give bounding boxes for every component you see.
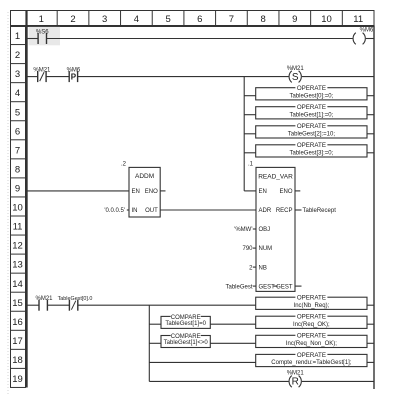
svg-text:OPERATE: OPERATE bbox=[297, 295, 326, 302]
wire operate row 16 to right rail bbox=[367, 323, 374, 325]
svg-text:OBJ: OBJ bbox=[259, 227, 271, 233]
contact %M21 rung15 bbox=[39, 300, 47, 311]
operate block TableGest[3]:=0; bbox=[256, 141, 367, 157]
svg-text:%M6: %M6 bbox=[360, 28, 374, 34]
operate block Compte_rendu:=TableGest[1]; bbox=[256, 351, 367, 367]
svg-text:OPERATE: OPERATE bbox=[297, 123, 326, 130]
svg-text:Inc(Req_OK);: Inc(Req_OK); bbox=[293, 322, 330, 328]
wire rung1: left rail to contact %S6 bbox=[27, 38, 39, 40]
svg-text:17: 17 bbox=[12, 336, 23, 347]
svg-text:3: 3 bbox=[15, 69, 20, 80]
svg-text:18: 18 bbox=[12, 355, 23, 366]
ADDM IN tick bbox=[127, 209, 129, 211]
svg-text:OUT: OUT bbox=[145, 208, 158, 214]
branch wire to operate block row 4 bbox=[244, 95, 256, 97]
svg-text:OPERATE: OPERATE bbox=[297, 352, 326, 359]
svg-text:RECP: RECP bbox=[276, 208, 293, 214]
svg-text:19: 19 bbox=[12, 374, 23, 385]
svg-text:5: 5 bbox=[15, 107, 20, 118]
svg-text:TableGest[2]:=10;: TableGest[2]:=10; bbox=[288, 132, 336, 138]
svg-text:TableGest[0].0: TableGest[0].0 bbox=[58, 296, 93, 302]
ADDM ENO stub bbox=[160, 190, 165, 192]
svg-text:Compte_rendu:=TableGest[1];: Compte_rendu:=TableGest[1]; bbox=[271, 360, 352, 366]
branch wire to operate block row 7 bbox=[244, 152, 256, 154]
svg-text:10: 10 bbox=[12, 203, 23, 214]
svg-text:16: 16 bbox=[12, 317, 23, 328]
svg-text:2: 2 bbox=[249, 265, 253, 271]
svg-text:ENO: ENO bbox=[279, 189, 292, 195]
wire rung3: between contacts bbox=[46, 76, 69, 78]
svg-text:%M6: %M6 bbox=[67, 67, 81, 73]
wire operate rung15 to right rail bbox=[367, 304, 374, 306]
svg-text:7: 7 bbox=[229, 14, 234, 25]
svg-text:OPERATE: OPERATE bbox=[297, 333, 326, 340]
svg-text:NB: NB bbox=[259, 265, 267, 271]
wire: branch to READ_VAR EN bbox=[244, 190, 256, 192]
wire rung19: branch to reset coil bbox=[149, 380, 288, 382]
svg-text:R: R bbox=[292, 377, 299, 388]
svg-text:ENO: ENO bbox=[145, 189, 158, 195]
svg-text:Inc(Req_Non_OK);: Inc(Req_Non_OK); bbox=[286, 341, 337, 347]
svg-text:%M21: %M21 bbox=[35, 296, 53, 302]
wire: left rail to ADDM EN bbox=[27, 190, 130, 192]
svg-text:P: P bbox=[71, 72, 77, 81]
svg-text:2: 2 bbox=[15, 50, 20, 61]
wire rung15: between contacts bbox=[47, 304, 69, 306]
svg-text:ADDM: ADDM bbox=[135, 173, 154, 180]
operate block Inc(Nb_Req); bbox=[256, 294, 367, 310]
svg-text:Inc(Nb_Req);: Inc(Nb_Req); bbox=[294, 303, 330, 309]
READ_VAR GEST output stub bbox=[295, 285, 302, 287]
svg-text:11: 11 bbox=[13, 222, 23, 233]
wire rung3: left rail to contact %M21 bbox=[27, 76, 38, 78]
wire compare to operate row 17 bbox=[210, 342, 255, 344]
svg-text:9: 9 bbox=[292, 14, 297, 25]
svg-text:%M21: %M21 bbox=[287, 371, 305, 377]
svg-text:7: 7 bbox=[15, 145, 20, 156]
svg-text:IN: IN bbox=[132, 208, 138, 214]
svg-text:2: 2 bbox=[70, 14, 75, 25]
svg-text:OPERATE: OPERATE bbox=[297, 142, 326, 149]
READ_VAR ENO stub bbox=[295, 190, 300, 192]
svg-text:5: 5 bbox=[165, 14, 170, 25]
svg-text:3: 3 bbox=[102, 14, 107, 25]
svg-text:TableRecept: TableRecept bbox=[303, 208, 337, 214]
svg-text:S: S bbox=[292, 72, 299, 83]
svg-text:8: 8 bbox=[260, 14, 265, 25]
branch wire to operate block row 6 bbox=[244, 133, 256, 135]
wire READ_VAR RECP output bbox=[295, 209, 302, 211]
svg-text:1: 1 bbox=[39, 14, 44, 25]
wire operate row 6 to right rail bbox=[367, 133, 374, 135]
svg-text:TableGest[0]:=0;: TableGest[0]:=0; bbox=[289, 94, 333, 100]
svg-text:9: 9 bbox=[15, 184, 20, 195]
coil %M6 bbox=[353, 33, 365, 45]
operate block Inc(Req_OK); bbox=[256, 313, 367, 329]
wire rung15: contact to operate block bbox=[78, 304, 256, 306]
wire compare to operate row 16 bbox=[210, 323, 255, 325]
svg-text:NUM: NUM bbox=[259, 246, 273, 252]
svg-text:'%MW': '%MW' bbox=[234, 227, 252, 233]
svg-text:COMPARE: COMPARE bbox=[171, 315, 201, 321]
branch wire to compare block row 17 bbox=[149, 342, 161, 344]
svg-text:10: 10 bbox=[321, 14, 332, 25]
reset coil %M21 (R) bbox=[289, 376, 301, 388]
vertical branch wire rung15 down to rung19 bbox=[148, 305, 150, 381]
svg-text:12: 12 bbox=[12, 241, 23, 252]
svg-text:TableGest[1]=0: TableGest[1]=0 bbox=[165, 321, 206, 327]
svg-text:8: 8 bbox=[15, 164, 20, 175]
svg-text:%M21: %M21 bbox=[33, 67, 51, 73]
svg-text:OPERATE: OPERATE bbox=[297, 104, 326, 111]
svg-text:6: 6 bbox=[15, 126, 20, 137]
svg-text:READ_VAR: READ_VAR bbox=[258, 174, 293, 181]
svg-text:TableGest[1]:=0;: TableGest[1]:=0; bbox=[289, 113, 333, 119]
svg-text:13: 13 bbox=[12, 260, 23, 271]
selection highlight on contact %S6 bbox=[29, 27, 60, 45]
left power rail bbox=[25, 26, 27, 388]
branch wire to compare block row 16 bbox=[149, 323, 161, 325]
wire operate row 7 to right rail bbox=[367, 152, 374, 154]
svg-text:11: 11 bbox=[353, 14, 363, 25]
svg-text:COMPARE: COMPARE bbox=[171, 334, 201, 340]
wire rung15: left rail to contact %M21 bbox=[27, 304, 40, 306]
set coil %M21 (S) bbox=[289, 71, 301, 83]
svg-text:15: 15 bbox=[12, 298, 23, 309]
svg-text:4: 4 bbox=[15, 88, 20, 99]
operate block TableGest[0]:=0; bbox=[256, 84, 367, 100]
right power rail bbox=[373, 26, 375, 390]
function block READ_VAR (instance .1) bbox=[248, 162, 295, 292]
compare block TableGest[1]=0 bbox=[161, 313, 210, 328]
svg-text:TableGest[1]<>0: TableGest[1]<>0 bbox=[164, 340, 209, 346]
wire operate row 17 to right rail bbox=[367, 342, 374, 344]
function block ADDM (instance .2) bbox=[121, 162, 160, 217]
svg-text:TableGest[3]:=0;: TableGest[3]:=0; bbox=[289, 151, 333, 157]
svg-text:1: 1 bbox=[15, 31, 20, 42]
svg-text:14: 14 bbox=[12, 279, 23, 290]
svg-text:GEST: GEST bbox=[276, 284, 293, 290]
svg-text:GEST: GEST bbox=[259, 284, 276, 290]
compare block TableGest[1]&lt;&gt;0 bbox=[161, 332, 210, 347]
wire operate rung18 to right rail bbox=[367, 361, 374, 363]
svg-text:EN: EN bbox=[132, 189, 140, 195]
wire operate row 4 to right rail bbox=[367, 95, 374, 97]
wire rung1: contact %S6 to coil %M6 bbox=[47, 38, 353, 40]
wire rung3: set coil to right rail bbox=[302, 76, 374, 78]
svg-text:EN: EN bbox=[259, 189, 267, 195]
contact TableGest[0].0 (normally closed) bbox=[69, 300, 77, 311]
wire operate row 5 to right rail bbox=[367, 114, 374, 116]
contact %M6 (rising edge P) bbox=[69, 71, 77, 82]
wire rung3: contact %M6 to set coil bbox=[78, 76, 289, 78]
wire rung18: branch to operate block bbox=[149, 361, 255, 363]
GEST tick bbox=[253, 285, 256, 287]
svg-text:ADR: ADR bbox=[259, 208, 272, 214]
svg-text:4: 4 bbox=[134, 14, 139, 25]
NUM tick bbox=[253, 247, 256, 249]
operate block Inc(Req_Non_OK); bbox=[256, 332, 367, 348]
vertical branch wire from rung3 down to READ_VAR EN bbox=[243, 77, 245, 191]
wire rung19: reset coil to right rail bbox=[302, 380, 374, 382]
contact %M21 (normally closed) bbox=[38, 71, 46, 82]
svg-text:%S6: %S6 bbox=[36, 29, 49, 35]
svg-text:TableGest: TableGest bbox=[225, 284, 252, 290]
GEST to GEST internal dash bbox=[273, 285, 278, 287]
svg-text:%M21: %M21 bbox=[287, 66, 305, 72]
svg-text:'0.0.0.5': '0.0.0.5' bbox=[104, 208, 125, 214]
operate block TableGest[1]:=0; bbox=[256, 103, 367, 119]
svg-text:.2: .2 bbox=[121, 162, 127, 168]
wire: ADDM OUT to READ_VAR ADR bbox=[160, 209, 256, 211]
wire rung1: coil %M6 to right rail bbox=[366, 38, 374, 40]
svg-text:OPERATE: OPERATE bbox=[297, 314, 326, 321]
svg-text:6: 6 bbox=[197, 14, 202, 25]
operate block TableGest[2]:=10; bbox=[256, 122, 367, 138]
svg-text:790: 790 bbox=[242, 246, 253, 252]
contact %S6 bbox=[38, 33, 46, 44]
branch wire to operate block row 5 bbox=[244, 114, 256, 116]
svg-text:.1: .1 bbox=[248, 162, 254, 168]
svg-text:OPERATE: OPERATE bbox=[297, 85, 326, 92]
NB tick bbox=[253, 266, 256, 268]
OBJ tick bbox=[253, 228, 256, 230]
